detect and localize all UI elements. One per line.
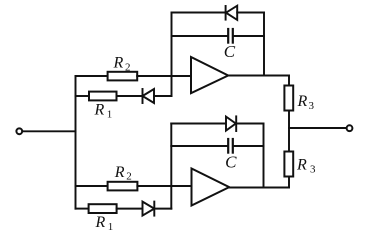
- svg-text:R: R: [95, 214, 106, 231]
- svg-text:R: R: [113, 55, 124, 72]
- input terminal: [16, 128, 22, 134]
- svg-text:1: 1: [107, 108, 113, 120]
- svg-text:3: 3: [309, 100, 315, 112]
- wire: left input bus: [75, 76, 77, 209]
- wire: R2 to op-amp input (top): [137, 75, 191, 77]
- wire: top capacitor left segment: [172, 35, 228, 37]
- svg-text:2: 2: [126, 171, 132, 183]
- wire: bus to R1 (bottom): [76, 208, 89, 210]
- op-amp U2 (bottom): [192, 169, 230, 206]
- wire: bottom feedback left vertical: [170, 124, 172, 209]
- svg-text:2: 2: [125, 61, 131, 73]
- capacitor C (top): [228, 29, 233, 43]
- wire: bottom loop upper-right segment: [236, 123, 263, 125]
- wire: R2 to op-amp input (bottom): [137, 185, 191, 187]
- wire: bottom op-amp output: [229, 187, 289, 189]
- label R2 (bottom): [114, 164, 132, 183]
- label R1 (bottom): [95, 214, 114, 233]
- resistor R3 (top): [284, 86, 293, 111]
- resistor R3 (bottom): [284, 152, 293, 177]
- svg-text:3: 3: [310, 164, 316, 176]
- svg-text:R: R: [114, 164, 125, 181]
- wire: top op-amp output: [228, 75, 289, 77]
- diode (top feedback loop, cathode left): [226, 6, 238, 20]
- label R1 (top): [94, 102, 113, 121]
- resistor R2 (bottom): [108, 182, 138, 191]
- resistor R1 (bottom): [89, 204, 117, 213]
- resistor R2 (top): [108, 72, 138, 81]
- label R3 (top): [297, 93, 315, 112]
- wire: R1 to diode (bottom): [117, 208, 143, 210]
- wire: input lead: [22, 130, 75, 132]
- label C (top): [224, 42, 236, 61]
- svg-text:R: R: [297, 93, 308, 110]
- label R2 (top): [113, 55, 131, 74]
- wire: diode to feedback node (top): [154, 95, 172, 97]
- wire: bottom capacitor right segment: [233, 145, 264, 147]
- wire: top feedback right vertical: [263, 13, 265, 76]
- wire: bus to R1 (top): [76, 95, 90, 97]
- svg-text:1: 1: [108, 221, 114, 232]
- output terminal: [347, 125, 353, 131]
- wire: bus to R2 (bottom): [76, 185, 108, 187]
- capacitor C (bottom): [228, 139, 233, 153]
- label R3 (bottom): [296, 157, 316, 176]
- resistor R1 (top): [89, 92, 117, 101]
- wire: bus to R2 (top): [76, 75, 108, 77]
- wire: top loop upper-left segment: [172, 12, 226, 14]
- wire: bottom feedback right vertical: [263, 124, 265, 188]
- label C (bottom): [225, 153, 237, 172]
- wire: diode to feedback node (bottom): [154, 208, 171, 210]
- svg-text:R: R: [94, 102, 105, 119]
- svg-text:C: C: [225, 153, 237, 172]
- wire: top loop upper-right segment: [237, 12, 264, 14]
- wire: top capacitor right segment: [233, 35, 264, 37]
- wire: output rail: [289, 127, 346, 129]
- wire: R1 to diode (top): [117, 95, 143, 97]
- wire: bottom loop upper-left segment: [171, 123, 226, 125]
- wire: R3 (bottom) lower lead: [288, 177, 290, 188]
- svg-text:C: C: [224, 42, 236, 61]
- wire: R3 (top) lower lead: [288, 111, 290, 129]
- wire: bottom capacitor left segment: [171, 145, 228, 147]
- wire: R3 (top) upper lead: [288, 76, 290, 86]
- wire: top feedback left vertical: [171, 13, 173, 97]
- diode (top R1 branch, cathode left): [143, 89, 155, 103]
- op-amp U1 (top): [191, 57, 228, 93]
- wire: R3 (bottom) upper lead: [288, 128, 290, 152]
- diode (bottom R1 branch, cathode right): [143, 202, 155, 216]
- svg-text:R: R: [296, 157, 307, 174]
- diode (bottom feedback loop, cathode right): [226, 116, 236, 131]
